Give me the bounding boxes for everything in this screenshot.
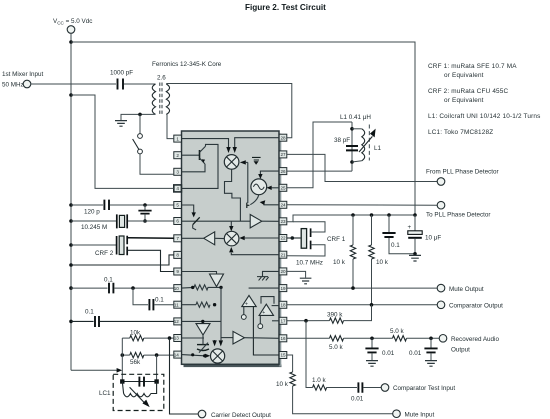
wire: mixer1 right input from oscillator node — [240, 160, 248, 203]
pin 4 box — [174, 185, 182, 192]
capacitor C2 120 p — [84, 200, 109, 216]
svg-text:CRF 2: muRata CFU 455C: CRF 2: muRata CFU 455C — [428, 88, 509, 95]
svg-text:5.0 k: 5.0 k — [329, 344, 344, 351]
svg-text:17: 17 — [280, 319, 286, 324]
svg-text:0.1: 0.1 — [104, 277, 113, 284]
amp A7 (audio out) to pin 16 — [233, 331, 279, 344]
wire: pin 16 line — [287, 337, 330, 339]
svg-text:0.01: 0.01 — [382, 350, 395, 357]
svg-text:1.0 k: 1.0 k — [312, 377, 327, 384]
svg-text:10k: 10k — [130, 330, 141, 337]
svg-text:LC1: Toko 7MC8128Z: LC1: Toko 7MC8128Z — [428, 129, 493, 136]
node: LC1 left square — [120, 379, 124, 383]
wire: switch S1 to pin 3 — [140, 154, 174, 174]
svg-text:or Equivalent: or Equivalent — [444, 72, 484, 79]
svg-text:Output: Output — [451, 347, 470, 354]
svg-text:10.7 MHz: 10.7 MHz — [296, 260, 323, 267]
wire: pin 21 into mixer2 bottom arrow — [229, 247, 279, 255]
wire: pin 12 line to audio amp — [182, 320, 222, 322]
pin 23 box — [279, 218, 287, 225]
svg-text:CRF 1: CRF 1 — [327, 236, 346, 243]
wire: mixer1 output staircase — [225, 169, 241, 221]
resistor R3 10 k (pull-up mute) — [333, 215, 356, 288]
To PLL Phase Detector terminal — [426, 201, 491, 218]
wire: rail to C2 — [71, 204, 103, 206]
svg-text:10 k: 10 k — [276, 381, 289, 388]
wire: input to C1 — [31, 83, 116, 85]
pin 24 box — [279, 201, 287, 208]
svg-text:6: 6 — [176, 219, 179, 224]
wire: limiter chain vertical — [220, 287, 222, 340]
wire: T1 secondary bottom to pin 1 — [166, 114, 174, 138]
pin 8 box — [174, 251, 182, 258]
node: rail to pin 6 line — [69, 219, 73, 223]
node: pin5 line branch — [143, 203, 147, 207]
resistor R int2 on pin 11 line — [182, 302, 217, 307]
wire: pin 23 stub to CRF1 top — [293, 222, 325, 232]
svg-text:12: 12 — [174, 319, 180, 324]
svg-text:120 p: 120 p — [84, 209, 100, 216]
Comparator Output terminal — [437, 301, 503, 310]
wire: junction to switch S1 — [139, 114, 141, 133]
wire: pin 17 line — [287, 320, 330, 322]
resistor R6 5.0 k — [329, 336, 393, 351]
svg-text:L1 0.41 μH: L1 0.41 μH — [340, 114, 371, 121]
node: comparator test tap — [304, 319, 308, 323]
capacitor C6 0.1 — [85, 309, 99, 328]
inductor L2 in LC1 (variable) — [122, 382, 156, 406]
Comparator Test Input terminal — [381, 384, 455, 393]
ground at T1 — [115, 121, 127, 127]
svg-text:Recovered Audio: Recovered Audio — [451, 336, 499, 343]
amp A1 (1st IF amp) — [250, 215, 262, 228]
svg-text:Mute Input: Mute Input — [405, 411, 435, 418]
carrier detect output terminal — [198, 410, 271, 419]
svg-text:1000 pF: 1000 pF — [110, 70, 133, 77]
node: VCC rail junction — [69, 40, 73, 44]
transistor Q1 — [200, 146, 206, 164]
wire: left tank vertical — [121, 338, 123, 381]
svg-text:L1: L1 — [374, 145, 382, 152]
LC1 tank wire — [122, 381, 156, 383]
resistor R7 5.0 k — [390, 328, 439, 341]
capacitor C13 0.01 — [351, 382, 381, 402]
node: VCC bus R4 tap — [370, 213, 374, 217]
capacitor C11 0.01 — [365, 338, 394, 366]
wire: pin 19 internal stub — [249, 287, 280, 289]
capacitor C8 38 pF — [334, 137, 358, 150]
pin 27 box — [279, 151, 287, 158]
svg-text:or Equivalent: or Equivalent — [444, 97, 484, 104]
pin 13 box — [174, 335, 182, 342]
capacitor C10 10uF electrolytic — [408, 215, 442, 255]
svg-text:Carrier Detect Output: Carrier Detect Output — [211, 412, 271, 419]
mixer U1a input arrows — [226, 147, 237, 153]
svg-text:50 MHz: 50 MHz — [2, 82, 24, 89]
svg-text:CRF 2: CRF 2 — [95, 250, 114, 257]
capacitor C7 in LC1 — [139, 377, 144, 387]
node: branch to pin 4 — [69, 93, 73, 97]
svg-text:0.01: 0.01 — [409, 350, 422, 357]
wire: L1 tank verticals — [351, 122, 353, 171]
svg-text:0.1: 0.1 — [155, 297, 164, 304]
pin 22 box — [279, 235, 287, 242]
pin 11 box — [174, 301, 182, 308]
wire: rail to CRF2 — [71, 244, 116, 246]
svg-text:10: 10 — [174, 286, 180, 291]
wire: CRF2 bottom to pin 9 — [128, 250, 174, 271]
node: tank bottom — [350, 160, 354, 164]
wire: pin 20 to ground — [287, 271, 306, 277]
inductor L1 (variable) — [352, 125, 382, 163]
node: R3 to mute line — [351, 286, 355, 290]
internal ground at pin 20 — [257, 271, 279, 280]
comparator A5 hook — [261, 297, 274, 304]
capacitor C4 0.1 — [104, 277, 113, 294]
wire: comparator A4 to pin 15 — [253, 307, 279, 355]
svg-text:1st Mixer Input: 1st Mixer Input — [2, 71, 44, 78]
transistor Q2 (pin 5 osc device) — [182, 205, 200, 230]
svg-text:Figure 2. Test Circuit: Figure 2. Test Circuit — [245, 3, 326, 12]
wire: C6 to pin 12 — [100, 320, 174, 322]
svg-text:+: + — [408, 224, 412, 231]
Recovered Audio Output terminal — [439, 335, 499, 354]
svg-text:19: 19 — [280, 286, 286, 291]
ceramic filter CRF2 — [95, 236, 127, 257]
LC1 dashed box — [113, 374, 164, 410]
node: C11 tap — [370, 337, 374, 341]
mixer U1d (quadrature detector) — [211, 349, 225, 363]
wire: carrier detect drop — [170, 338, 199, 414]
pin 28 box — [279, 134, 287, 141]
wire: VCC rail into tank node — [71, 368, 122, 373]
ceramic filter CRF1 — [287, 228, 346, 266]
node: rail to pin 5 line — [69, 203, 73, 207]
wire: CRF2 top to pin 7 — [128, 237, 174, 240]
svg-text:10.245 M: 10.245 M — [81, 224, 107, 231]
node: T1 center junction — [138, 113, 142, 117]
svg-text:27: 27 — [280, 152, 286, 157]
svg-text:56k: 56k — [130, 359, 141, 366]
pin 9 box — [174, 268, 182, 275]
wire: Q1 collector to pin 4 loop — [182, 144, 219, 188]
svg-text:Mute Output: Mute Output — [449, 286, 484, 293]
node: tank top — [350, 127, 354, 131]
wire: pin 18 to comparator output — [287, 304, 437, 306]
svg-text:18: 18 — [280, 303, 286, 308]
node: R4 to comparator line — [370, 303, 374, 307]
pin 6 box — [174, 218, 182, 225]
wire: rail to crystal Y1 — [71, 220, 116, 222]
wire: pin 9 to limiter input — [182, 272, 217, 275]
wire: pin 24 AFC arrow into oscillator — [260, 200, 280, 205]
wire: rail to pin 8 — [71, 255, 174, 265]
wire: pin28 internal stub — [235, 138, 280, 147]
wire: pin 27 to From PLL — [287, 154, 437, 181]
svg-text:3: 3 — [176, 170, 179, 175]
svg-text:10 k: 10 k — [376, 259, 389, 266]
capacitor C5 0.1 to pin 11 — [133, 288, 174, 310]
node: rail to pin 10 line — [69, 286, 73, 290]
wire: T1 primary bottom to ground — [121, 114, 156, 120]
node: rail to CRF2 — [69, 243, 73, 247]
wire: pin 26 to oscillator top — [258, 171, 279, 179]
svg-text:4: 4 — [176, 186, 179, 191]
transformer T1 primary — [152, 84, 155, 114]
svg-text:Ferronics 12-345-K Core: Ferronics 12-345-K Core — [152, 61, 222, 68]
mixer U1a (1st mixer) — [224, 155, 239, 170]
svg-text:38 pF: 38 pF — [334, 137, 350, 144]
oscillator U1b (2nd LO) — [251, 179, 267, 195]
resistor R9 1.0 k — [312, 377, 357, 390]
node: cap ground junction — [413, 252, 417, 256]
wire: pin 25 to oscillator right arrow — [267, 186, 280, 190]
wire: right tank vertical — [156, 355, 158, 381]
transistor Q1 base wire from pin 2 — [182, 154, 200, 156]
svg-text:26: 26 — [280, 169, 286, 174]
wire: VCC bus to pin 23 — [287, 215, 415, 222]
svg-text:Comparator Output: Comparator Output — [449, 303, 503, 310]
svg-text:25: 25 — [280, 186, 286, 191]
pin 15 box — [279, 352, 287, 359]
svg-text:24: 24 — [280, 203, 286, 208]
VCC terminal — [53, 18, 92, 33]
resistor R int1 on pin 10 line — [182, 285, 223, 290]
wire: C4 to pin 10 — [114, 287, 173, 289]
transformer T1 core — [160, 83, 162, 115]
pin 5 box — [174, 202, 182, 209]
node: R2 right junction — [155, 353, 159, 357]
signal ground mark (top) — [252, 157, 261, 164]
limiter amp A3 (triangle down) — [210, 274, 224, 287]
pin 21 box — [279, 251, 287, 258]
svg-text:To PLL Phase Detector: To PLL Phase Detector — [426, 212, 491, 219]
svg-text:390 k: 390 k — [327, 312, 343, 319]
svg-text:10 k: 10 k — [333, 259, 346, 266]
svg-text:8: 8 — [176, 253, 179, 258]
resistor R8 10 k (pin 15) — [276, 372, 393, 414]
svg-text:5.0 k: 5.0 k — [390, 328, 405, 335]
svg-text:+: + — [262, 310, 265, 316]
node: rail to pin 8 line — [69, 263, 73, 267]
wire: A5 output to pin 18 — [272, 305, 280, 307]
wire: pin 22 into mixer2 right arrow — [239, 236, 279, 240]
1st mixer input terminal — [2, 71, 44, 89]
pin 26 box — [279, 168, 287, 175]
comparator A4 (carrier detect) — [241, 295, 256, 319]
svg-text:Comparator Test Input: Comparator Test Input — [393, 385, 455, 392]
mixer U1c (2nd mixer) — [224, 231, 239, 246]
svg-text:15: 15 — [280, 353, 286, 358]
pin 19 box — [279, 285, 287, 292]
pin 14 box — [174, 351, 182, 358]
resistor R2 56k (pin 14) — [122, 352, 174, 366]
resistor R5 390 k — [327, 305, 372, 324]
node: pin 22 junction — [291, 236, 295, 240]
capacitor C1 1000 pF — [110, 70, 133, 90]
node: pin6 line branch — [143, 219, 147, 223]
svg-text:23: 23 — [280, 219, 286, 224]
svg-text:21: 21 — [280, 252, 286, 257]
transformer T1 secondary — [166, 84, 169, 114]
svg-text:14: 14 — [174, 352, 180, 357]
resistor R1 10k (pin 13) — [122, 330, 174, 341]
pin 1 box — [174, 135, 182, 142]
Mute Input terminal — [393, 410, 435, 418]
wire: amp A1 out to pin 23 — [262, 220, 279, 222]
pin 7 box — [174, 235, 182, 242]
svg-text:CRF 1: muRata SFE 10.7 MA: CRF 1: muRata SFE 10.7 MA — [428, 63, 517, 70]
wire: pin 19 to mute output — [287, 287, 437, 289]
ground at pin 20 — [300, 278, 312, 284]
IC U1 body — [182, 131, 280, 364]
svg-text:0.1: 0.1 — [85, 309, 94, 316]
svg-text:+: + — [245, 301, 248, 307]
pin 2 box — [174, 152, 182, 159]
wire: pin 25 to tank top — [287, 122, 352, 188]
svg-text:L1: Coilcraft UNI 10/142 10-1/: L1: Coilcraft UNI 10/142 10-1/2 Turns — [428, 113, 541, 120]
varactor bracket at oscillator bottom — [247, 195, 259, 208]
pin 20 box — [279, 268, 287, 275]
svg-text:10 μF: 10 μF — [425, 235, 441, 242]
wire: VCC branch to pin 4 — [71, 95, 174, 188]
node: VCC bus R3 tap — [351, 213, 355, 217]
wire: audio amp A7 input — [221, 337, 233, 339]
amp A6 (audio) triangle down — [196, 320, 210, 335]
pin 10 box — [174, 285, 182, 292]
svg-text:11: 11 — [174, 302, 179, 307]
svg-text:1: 1 — [176, 136, 179, 141]
pin 17 box — [279, 317, 287, 324]
wire: T1 secondary top to pin 28 — [166, 84, 291, 138]
resistor R4 10 k (pull-up comparator) — [369, 215, 389, 305]
capacitor C12 0.01 — [409, 338, 438, 366]
node: carrier detect tap — [168, 336, 172, 340]
svg-text:7: 7 — [176, 236, 179, 241]
node: pin10 line branch — [131, 286, 135, 290]
quad detector top arrows — [212, 340, 223, 346]
svg-text:0.1: 0.1 — [391, 242, 400, 249]
wire: A5 to pin 17 — [272, 320, 279, 322]
wire: pin 15 drop — [287, 355, 293, 372]
node: VCC bus C10 tap — [413, 213, 417, 217]
svg-text:LC1: LC1 — [99, 390, 111, 397]
wire: C2 to pin 5 — [110, 204, 174, 206]
pin 3 box — [174, 168, 182, 175]
wire: VCC drop — [70, 33, 72, 370]
svg-text:28: 28 — [280, 135, 286, 140]
pin 13 internal stub — [182, 337, 205, 339]
svg-text:5: 5 — [176, 203, 179, 208]
pin 18 box — [279, 301, 287, 308]
crystal Y1 10.245 MHz — [81, 214, 127, 231]
capacitor C9 0.1 — [382, 215, 415, 254]
quad detector cap — [197, 335, 209, 353]
wire: VCC top rail — [71, 42, 415, 215]
From PLL Phase Detector terminal — [426, 169, 499, 186]
svg-text:13: 13 — [174, 336, 180, 341]
wire: rail to C4 — [71, 287, 108, 289]
svg-text:9: 9 — [176, 269, 179, 274]
wire: Q1 emitter to pin 3 — [182, 164, 206, 172]
wire: comparator test drop — [306, 321, 313, 388]
wire: Y1 to pin 6 — [128, 220, 174, 222]
svg-text:2.6: 2.6 — [157, 75, 166, 82]
pin 16 box — [279, 335, 287, 342]
wire: C1 to transformer T1 — [124, 83, 156, 85]
node: rail to pin 12 line — [69, 320, 73, 324]
svg-text:2: 2 — [176, 153, 179, 158]
node: VCC bus C9 tap — [387, 213, 391, 217]
ground at VCC bus caps — [409, 255, 421, 261]
Mute Output terminal — [437, 284, 484, 292]
node: LC1 right square — [154, 379, 158, 383]
svg-text:20: 20 — [280, 269, 286, 274]
capacitor C3 (pin5-pin6) — [138, 205, 151, 221]
svg-text:From PLL Phase Detector: From PLL Phase Detector — [426, 169, 499, 176]
node: C12 tap — [429, 337, 433, 341]
svg-text:22: 22 — [280, 236, 286, 241]
wire: pin 6 internal line to IF amp — [182, 220, 251, 222]
wire: rail to C6 — [71, 320, 94, 322]
pin 12 box — [174, 318, 182, 325]
pin 25 box — [279, 184, 287, 191]
wire: pin 1 to pin 28 internal bus — [182, 139, 229, 147]
wire: pin 14 into quad mixer arrow — [182, 353, 211, 358]
amp A2 (mixer2 output amp) to pin 7 — [182, 232, 225, 245]
wire: branch into mixer2 top — [229, 221, 233, 231]
wire: pin 24 to To PLL — [287, 204, 437, 206]
svg-text:0.01: 0.01 — [351, 396, 364, 403]
comparator A5 (data comparator) — [258, 304, 274, 328]
svg-text:16: 16 — [280, 336, 286, 341]
node: R2 left junction — [121, 353, 125, 357]
IC U1 body shadow — [184, 134, 282, 368]
wire: pin 26 to tank bottom — [287, 170, 352, 172]
switch S1 — [133, 134, 143, 154]
